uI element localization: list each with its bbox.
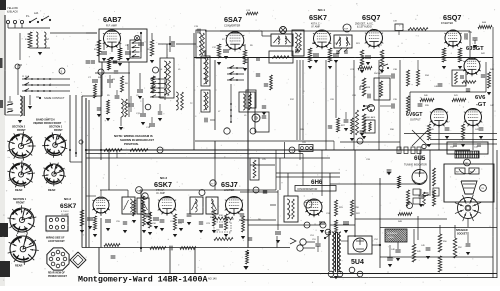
svg-text:TUNING INDICATOR: TUNING INDICATOR: [404, 164, 427, 167]
svg-text:FRONT: FRONT: [16, 202, 25, 205]
svg-text:-GT: -GT: [476, 102, 486, 108]
svg-text:R49: R49: [456, 172, 459, 174]
svg-text:6SK7: 6SK7: [309, 13, 327, 22]
svg-text:6SQ7: 6SQ7: [443, 13, 461, 22]
svg-text:FRONT: FRONT: [54, 129, 63, 132]
svg-text:6V6GT: 6V6GT: [406, 112, 423, 118]
svg-text:REAR: REAR: [15, 188, 22, 192]
svg-text:6V6: 6V6: [475, 95, 486, 101]
svg-text:4 7 M.C.: 4 7 M.C.: [61, 211, 70, 213]
svg-text:POSITION.: POSITION.: [124, 142, 139, 146]
svg-text:INVERTER: INVERTER: [441, 22, 453, 25]
svg-text:L2A: L2A: [34, 12, 39, 15]
svg-text:PHONO JACK: PHONO JACK: [363, 116, 376, 119]
svg-text:NO 140: NO 140: [208, 278, 217, 281]
svg-text:FRONT: FRONT: [17, 129, 26, 132]
svg-text:6SQ7: 6SQ7: [362, 13, 380, 22]
svg-text:LOOP SOCKET: LOOP SOCKET: [48, 241, 65, 243]
svg-text:TOP: TOP: [344, 29, 349, 31]
svg-text:DISCRIMINATOR: DISCRIMINATOR: [298, 188, 318, 191]
svg-text:T13: T13: [481, 188, 484, 190]
svg-text:6H6: 6H6: [311, 179, 323, 186]
svg-text:REAR: REAR: [48, 188, 55, 192]
svg-text:SAME CONTACT: SAME CONTACT: [44, 96, 65, 100]
svg-text:& BLACK: & BLACK: [7, 10, 18, 14]
svg-text:SOCKET: SOCKET: [457, 233, 468, 236]
svg-text:WIRING SIDE OF: WIRING SIDE OF: [46, 238, 65, 240]
svg-text:PHONO: PHONO: [374, 73, 382, 75]
svg-text:6AB7: 6AB7: [103, 15, 121, 24]
svg-text:I.F. AMP: I.F. AMP: [156, 192, 165, 195]
svg-text:BAND SWITCH: BAND SWITCH: [36, 118, 55, 122]
svg-text:P.L.: P.L.: [26, 15, 30, 18]
svg-text:POWER SOCKET: POWER SOCKET: [48, 276, 67, 278]
svg-text:S: S: [61, 70, 63, 74]
svg-text:R.F. AMP.: R.F. AMP.: [106, 24, 117, 28]
svg-text:6SJ7: 6SJ7: [221, 180, 238, 189]
svg-text:I.F. AMP: I.F. AMP: [61, 213, 70, 216]
svg-text:NO.1: NO.1: [318, 8, 325, 12]
svg-text:Montgomery-Ward 14BR-1400A: Montgomery-Ward 14BR-1400A: [78, 275, 207, 285]
svg-text:R50: R50: [470, 172, 473, 174]
svg-text:NO.2: NO.2: [64, 197, 71, 201]
svg-text:6SK7: 6SK7: [60, 203, 77, 210]
svg-text:REAR VIEW OF: REAR VIEW OF: [48, 272, 65, 275]
svg-text:CONVERTER: CONVERTER: [224, 24, 240, 28]
svg-text:5U4: 5U4: [351, 259, 364, 266]
svg-text:6J5GT: 6J5GT: [466, 46, 484, 52]
svg-text:SPEAKER: SPEAKER: [387, 232, 398, 235]
svg-text:6SK7: 6SK7: [154, 180, 172, 189]
svg-text:11 10 9: 11 10 9: [22, 76, 30, 78]
svg-text:VIEWED FROM FRONT: VIEWED FROM FRONT: [33, 121, 62, 125]
svg-text:REAR: REAR: [15, 264, 22, 268]
svg-text:FIELD: FIELD: [388, 237, 395, 239]
svg-text:6SA7: 6SA7: [224, 15, 242, 24]
svg-text:YELLOW: YELLOW: [7, 6, 18, 10]
svg-text:OUTPUT: OUTPUT: [410, 118, 421, 122]
svg-text:C60: C60: [216, 230, 219, 232]
